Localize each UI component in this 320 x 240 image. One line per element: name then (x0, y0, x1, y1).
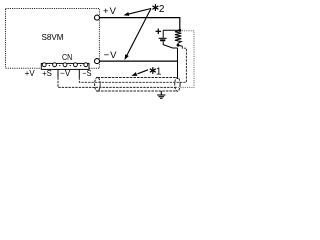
svg-text:+V: +V (25, 68, 35, 78)
sense wire +S (gray dotted): cable right end up to +V node (176, 31, 194, 88)
battery (load) (159, 30, 178, 48)
wire resistor bottom to sense wire (178, 45, 182, 46)
svg-text:CN: CN (62, 53, 72, 62)
svg-text:1: 1 (156, 66, 162, 77)
arrow *1 to cable (131, 70, 148, 76)
shielded cable (cylinder) (95, 77, 180, 91)
connector CN terminal strip (41, 63, 89, 70)
sense wire -S (black dashed): CN pin down, through cable, up to load bottom (78, 69, 80, 77)
power supply unit S8VM dashed box (6, 9, 100, 69)
terminal -V output circle (95, 59, 100, 64)
terminal +V output circle (95, 15, 100, 20)
svg-text:+S: +S (42, 68, 52, 78)
wire -V node down to cable shield (177, 48, 179, 79)
svg-text:+V: +V (103, 6, 117, 17)
label *1 (150, 67, 156, 74)
node junction dot +V/load (178, 29, 181, 32)
resistor (load) zigzag (175, 30, 181, 45)
arrow *2 to +V wire (124, 9, 152, 16)
sense wire +S (black dashed): CN pin down, through cable to right (57, 69, 59, 77)
svg-text:S8VM: S8VM (42, 32, 64, 42)
node resistor bottom dot (177, 44, 180, 47)
wire +V to load (100, 18, 180, 31)
svg-text:2: 2 (159, 4, 165, 15)
wire node to battery top (163, 29, 180, 31)
svg-text:−V: −V (60, 68, 71, 78)
svg-text:−V: −V (104, 50, 118, 61)
arrow *2 to -V wire (125, 9, 152, 61)
ground symbol (157, 91, 165, 98)
svg-text:−S: −S (82, 68, 92, 78)
battery plus sign (156, 29, 162, 35)
wire -V to load (100, 60, 178, 62)
label *2 (152, 4, 158, 11)
